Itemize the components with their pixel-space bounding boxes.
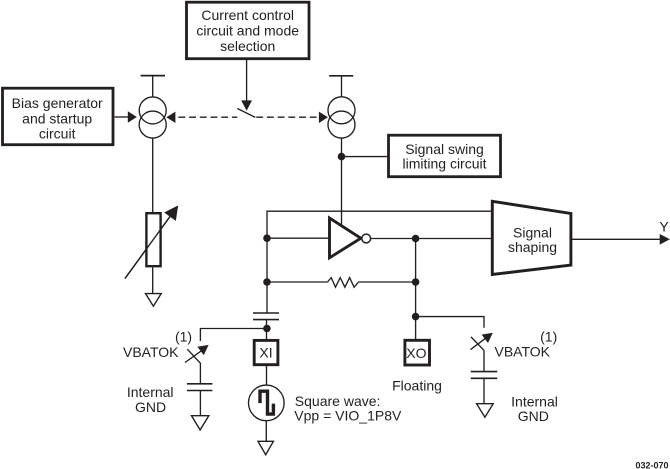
svg-text:(1): (1)	[175, 329, 192, 345]
svg-text:VBATOK: VBATOK	[495, 343, 551, 359]
svg-text:(1): (1)	[540, 328, 557, 344]
svg-text:shaping: shaping	[508, 239, 557, 255]
svg-text:Vpp = VIO_1P8V: Vpp = VIO_1P8V	[294, 407, 402, 423]
svg-text:XI: XI	[259, 345, 272, 361]
svg-text:VBATOK: VBATOK	[123, 344, 179, 360]
svg-text:selection: selection	[220, 38, 275, 54]
svg-text:Floating: Floating	[392, 377, 442, 393]
svg-text:circuit and mode: circuit and mode	[196, 23, 299, 39]
svg-text:and startup: and startup	[22, 110, 92, 126]
svg-text:Current control: Current control	[201, 7, 294, 23]
svg-text:Internal: Internal	[127, 384, 174, 400]
svg-text:Y: Y	[659, 218, 669, 234]
svg-text:GND: GND	[135, 399, 166, 415]
svg-text:limiting circuit: limiting circuit	[402, 156, 486, 172]
svg-text:Bias generator: Bias generator	[12, 95, 103, 111]
svg-text:Signal swing: Signal swing	[405, 141, 484, 157]
svg-text:XO: XO	[406, 345, 426, 361]
svg-text:GND: GND	[518, 408, 549, 424]
svg-text:032-070: 032-070	[635, 460, 668, 469]
svg-text:circuit: circuit	[39, 126, 76, 142]
svg-text:Signal: Signal	[513, 225, 552, 241]
